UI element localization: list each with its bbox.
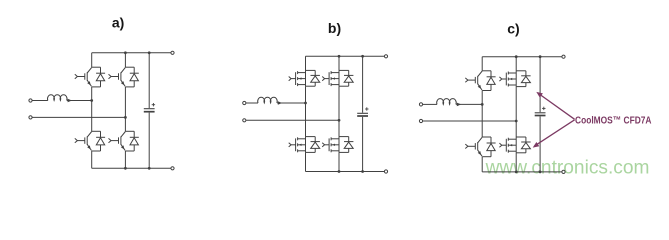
node: top rail / capacitor (c) <box>539 55 542 58</box>
transistor Qa4 (IGBT with body diode) <box>109 132 126 151</box>
wire: right leg (b) <box>338 56 340 70</box>
node: bottom rail / right leg (a) <box>124 167 127 170</box>
node: left-leg midpoint junction (c) <box>481 103 484 106</box>
wire: bottom input to right-leg midpoint (b) <box>246 119 339 121</box>
terminal: DC+ output (b) <box>384 55 387 58</box>
wire: input to inductor (b) <box>246 102 258 104</box>
terminal: DC- output (a) <box>171 167 174 170</box>
current direction arrow (b) <box>278 101 282 105</box>
transistor Qc2 (CoolMOS MOSFET with body diode) <box>499 71 516 87</box>
current direction arrow (c) <box>457 103 461 107</box>
body diode of Qa3 <box>92 131 105 151</box>
wire: positive DC rail (b) <box>306 55 387 57</box>
node: bottom rail / capacitor (b) <box>361 170 364 173</box>
terminal: AC input top (a) <box>29 99 32 102</box>
body diode of Qc1 <box>482 71 495 91</box>
terminal: AC input bottom (a) <box>29 116 32 119</box>
wire: negative DC rail (b) <box>306 171 387 173</box>
body diode of Qc2 <box>516 71 530 87</box>
capacitor Cb (DC link, + marked) <box>357 56 368 171</box>
wire: positive DC rail (a) <box>92 52 173 54</box>
svg-text:CoolMOS™ CFD7A: CoolMOS™ CFD7A <box>575 115 652 126</box>
capacitor Ca (DC link, + marked) <box>144 53 155 169</box>
body diode of Qb1 <box>306 70 320 86</box>
wire: bottom input to right-leg midpoint (a) <box>32 116 125 118</box>
transistor Qb4 (CoolMOS MOSFET with body diode) <box>322 137 339 153</box>
wire: negative DC rail (c) <box>482 171 563 173</box>
wire: bottom input to right-leg midpoint (c) <box>423 120 516 122</box>
wire: left leg (c) <box>481 57 483 71</box>
node: right-leg midpoint junction (b) <box>338 119 341 122</box>
body diode of Qa2 <box>125 67 138 87</box>
transistor Qc4 (CoolMOS MOSFET with body diode) <box>499 137 516 153</box>
transistor Qb2 (CoolMOS MOSFET with body diode) <box>322 70 339 86</box>
transistor Qb3 (CoolMOS MOSFET with body diode) <box>289 137 306 153</box>
body diode of Qa1 <box>92 67 105 87</box>
node: top rail / right leg (c) <box>515 55 518 58</box>
terminal: AC input bottom (b) <box>243 119 246 122</box>
svg-text:b): b) <box>328 20 341 36</box>
annotation arrow to lower CoolMOS Qc4 <box>534 120 574 146</box>
transistor Qa1 (IGBT with body diode) <box>75 67 92 86</box>
inductor La <box>48 95 68 101</box>
capacitor Cc (DC link, + marked) <box>535 57 546 172</box>
annotation arrow to upper CoolMOS Qc2 <box>538 93 575 119</box>
transistor Qa3 (IGBT with body diode) <box>75 132 92 151</box>
wire: left leg (a) <box>91 53 93 67</box>
wire: inductor to left-leg midpoint (a) <box>67 100 92 102</box>
node: top rail / capacitor (b) <box>361 55 364 58</box>
wire: right leg (a) <box>124 53 126 67</box>
wire: inductor to left-leg midpoint (b) <box>277 102 305 104</box>
transistor Qc1 (IGBT with body diode) <box>465 71 482 90</box>
body diode of Qa4 <box>125 131 138 151</box>
terminal: AC input top (b) <box>243 101 246 104</box>
body diode of Qb3 <box>306 137 320 153</box>
wire: positive DC rail (c) <box>482 56 563 58</box>
node: right-leg midpoint junction (c) <box>515 120 518 123</box>
transistor Qc3 (IGBT with body diode) <box>465 137 482 156</box>
transistor Qb1 (CoolMOS MOSFET with body diode) <box>289 70 306 86</box>
current direction arrow (a) <box>68 99 72 103</box>
wire: input to inductor (c) <box>423 103 437 105</box>
node: bottom rail / right leg (b) <box>338 170 341 173</box>
terminal: DC- output (c) <box>562 170 565 173</box>
body diode of Qc4 <box>516 137 530 153</box>
node: bottom rail / capacitor (c) <box>539 171 542 174</box>
wire: left leg (b) <box>305 56 307 70</box>
node: top rail / right leg (b) <box>338 55 341 58</box>
node: top rail / capacitor (a) <box>148 51 151 54</box>
wire: input to inductor (a) <box>32 100 48 102</box>
svg-text:a): a) <box>112 15 124 31</box>
inductor Lb <box>258 97 278 103</box>
body diode of Qb2 <box>339 70 353 86</box>
terminal: AC input bottom (c) <box>419 119 422 122</box>
wire: inductor to left-leg midpoint (c) <box>456 103 482 105</box>
terminal: AC input top (c) <box>419 103 422 106</box>
wire: negative DC rail (a) <box>92 167 173 169</box>
body diode of Qc3 <box>482 137 495 157</box>
node: bottom rail / capacitor (a) <box>148 167 151 170</box>
node: right-leg midpoint junction (a) <box>124 116 127 119</box>
node: left-leg midpoint junction (a) <box>90 99 93 102</box>
terminal: DC- output (b) <box>384 170 387 173</box>
node: bottom rail / right leg (c) <box>515 171 518 174</box>
svg-text:www.cntronics.com: www.cntronics.com <box>485 158 650 179</box>
body diode of Qb4 <box>339 137 353 153</box>
wire: right leg (c) <box>515 57 517 71</box>
node: top rail / right leg (a) <box>124 51 127 54</box>
inductor Lc <box>437 99 457 105</box>
node: left-leg midpoint junction (b) <box>304 102 307 105</box>
svg-text:c): c) <box>507 21 519 37</box>
terminal: DC+ output (a) <box>171 51 174 54</box>
transistor Qa2 (IGBT with body diode) <box>109 67 126 86</box>
terminal: DC+ output (c) <box>562 55 565 58</box>
